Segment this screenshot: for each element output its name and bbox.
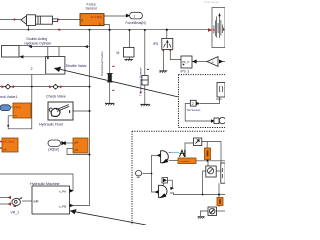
svg-text:-1: -1 (211, 60, 214, 64)
svg-text:Translational Position: Translational Position (100, 51, 104, 76)
svg-text:1: 1 (134, 15, 136, 19)
svg-text:Check Valve: Check Valve (46, 94, 66, 98)
svg-text:Hydraulic Machine: Hydraulic Machine (30, 182, 60, 186)
svg-text:PS_S: PS_S (182, 60, 189, 64)
svg-text:Sensor: Sensor (86, 7, 98, 11)
svg-text:IPS: IPS (153, 42, 158, 46)
svg-text:ForceMeas[N]: ForceMeas[N] (126, 21, 146, 25)
svg-text:=====: ===== (181, 159, 190, 163)
svg-text:p[m]: p[m] (15, 105, 21, 109)
svg-text:pR[bar]: pR[bar] (49, 147, 60, 151)
svg-text:Two Sensors: Two Sensors (187, 109, 202, 112)
svg-text:IPS_3: IPS_3 (181, 69, 190, 73)
svg-text:Hydraulic Fluid: Hydraulic Fluid (39, 122, 63, 126)
svg-text:Force Scope: Force Scope (204, 0, 219, 4)
svg-text:Hydraulic Cylinder: Hydraulic Cylinder (25, 41, 53, 45)
svg-text:M: M (117, 51, 120, 55)
svg-text:wM: wM (34, 200, 39, 204)
svg-text:Check Valve1: Check Valve1 (0, 95, 17, 99)
svg-text:s_PB: s_PB (59, 204, 66, 208)
svg-text:Shuttle Valve: Shuttle Valve (66, 64, 87, 68)
svg-text:F m:l[N]: F m:l[N] (91, 15, 102, 19)
svg-text:s_PA: s_PA (59, 190, 66, 194)
svg-text:VR_1: VR_1 (11, 210, 20, 214)
svg-text:Valve: Valve (216, 98, 222, 101)
svg-text:Translational Damper: Translational Damper (139, 67, 143, 96)
svg-text:pA: pA (3, 148, 7, 152)
svg-text:2: 2 (31, 67, 33, 71)
svg-text:pA_Sw1: pA_Sw1 (3, 140, 15, 144)
